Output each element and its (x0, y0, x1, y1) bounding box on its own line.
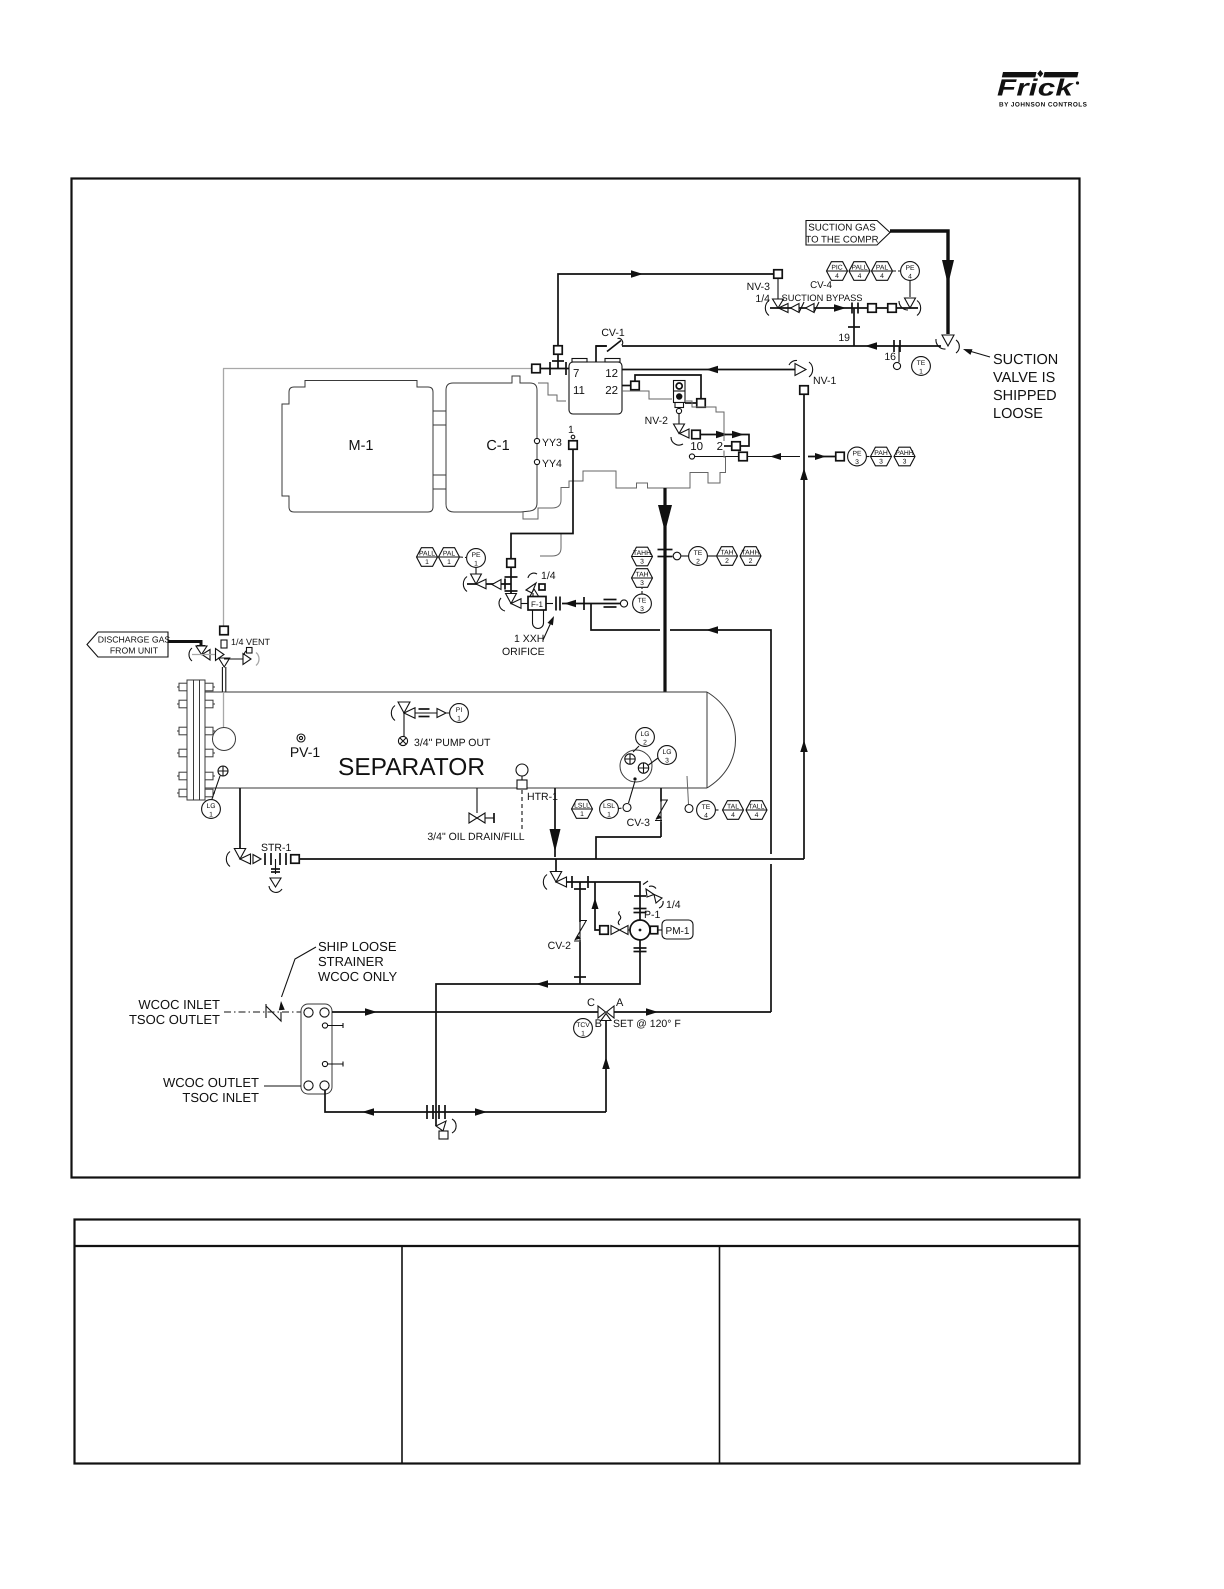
flow arrow right on y274 (631, 270, 643, 278)
svg-text:1: 1 (447, 559, 451, 566)
svg-text:TE: TE (917, 360, 926, 367)
node LSL tap (623, 804, 631, 812)
node port1 (571, 435, 575, 439)
svg-text:TE: TE (638, 597, 647, 604)
valve pump out angle (398, 702, 410, 713)
fitting square port10 a (739, 452, 748, 461)
wire PE-1 branch (467, 583, 511, 585)
svg-text:Frick: Frick (997, 75, 1075, 101)
svg-text:12: 12 (605, 368, 618, 380)
ticks junction 16 (893, 340, 895, 352)
wire vent branch (224, 658, 243, 660)
valve quarter relief P1 (646, 889, 654, 897)
svg-text:TSOC INLET: TSOC INLET (182, 1090, 259, 1105)
svg-text:1/4 VENT: 1/4 VENT (231, 637, 271, 647)
svg-text:4: 4 (880, 273, 884, 280)
union pump bottom (634, 947, 647, 949)
svg-text:3: 3 (665, 757, 669, 764)
instrument TE-3 (633, 594, 652, 613)
separator internal float chamber (213, 728, 236, 751)
tick oil inj b (505, 590, 518, 592)
node YY3 (534, 438, 539, 443)
wire port7 header (531, 368, 569, 370)
wire loop y630 right (670, 630, 771, 854)
valve vent block (216, 649, 225, 661)
svg-text:1: 1 (581, 1030, 585, 1037)
separator shell (205, 692, 707, 788)
signal dash PAL4-PE4 (893, 270, 900, 272)
instrument TAL-4 (723, 801, 744, 820)
svg-text:TE: TE (702, 804, 711, 811)
node YY4 (534, 459, 539, 464)
instrument PE-3 (848, 447, 867, 466)
leader LG-1 (212, 776, 220, 799)
wire solenoid loop (635, 375, 701, 399)
flow arrow up TCV B (602, 1057, 610, 1069)
wire pump left port (627, 929, 630, 931)
wire WCOC top line (332, 1011, 598, 1013)
svg-text:1 XXH: 1 XXH (514, 633, 544, 645)
fitting square port10 b (836, 452, 845, 461)
valve NV-1 needle (795, 364, 806, 376)
thermowell TE-3 (620, 600, 627, 607)
flow arrow left y630 (706, 626, 718, 634)
tick oil line (583, 597, 585, 610)
svg-text:7: 7 (573, 368, 579, 380)
svg-text:PE: PE (471, 552, 481, 559)
node port10 (689, 454, 694, 459)
separator flange bolts (179, 683, 187, 691)
thermowell TE-2 circle (673, 552, 681, 560)
svg-text:SEPARATOR: SEPARATOR (338, 754, 485, 781)
fitting square solenoid right (697, 399, 706, 408)
instrument TAH-2 (717, 547, 738, 566)
svg-text:P-1: P-1 (644, 909, 661, 921)
wire discharge flag thick (168, 642, 201, 647)
instrument TE-2 (689, 547, 708, 566)
instrument PAHH-3 (894, 447, 915, 466)
valve discharge check (189, 648, 192, 661)
fitting square pump right (650, 926, 658, 934)
svg-text:SUCTION BYPASS: SUCTION BYPASS (782, 293, 863, 303)
separator head (707, 692, 736, 788)
leader ship loose (282, 947, 317, 997)
wire vent grey stub (192, 654, 216, 656)
junction ticks at 19 (851, 303, 853, 314)
svg-text:2: 2 (717, 441, 723, 453)
instrument PE-4 (901, 262, 920, 281)
instrument LSL-1 (600, 800, 619, 819)
svg-text:CV-4: CV-4 (810, 280, 832, 291)
fitting square bypass 1 (868, 304, 877, 313)
thermowell TE-2 bars (658, 549, 673, 551)
svg-text:2: 2 (725, 558, 729, 565)
tick CV2 top (574, 888, 586, 890)
fitting square port1 (569, 441, 578, 450)
svg-text:PALL: PALL (419, 550, 435, 557)
wire vessel main oil outlet (554, 788, 556, 857)
instrument PE-1 (467, 549, 486, 568)
wire LG-2 tap (633, 746, 639, 752)
instrument PAL-1 (439, 548, 460, 567)
wire LG-3 tap (649, 758, 659, 765)
svg-text:B: B (595, 1018, 602, 1030)
solenoid valve SV (674, 381, 686, 403)
wire port22 stub (622, 385, 631, 387)
instrument TALL-4 (746, 801, 767, 820)
wire port10 line b (808, 456, 836, 458)
svg-text:1/4: 1/4 (541, 570, 556, 582)
instrument TE-4 (697, 801, 716, 820)
wire NV-1 riser x804 (803, 394, 805, 859)
valve bypass check 2 (806, 304, 815, 313)
wire CV-3 horiz (596, 837, 661, 859)
flow arrow up NV1 riser a (800, 468, 808, 480)
svg-text:STR-1: STR-1 (261, 842, 291, 854)
svg-text:1: 1 (425, 559, 429, 566)
flow arrow right bypass (834, 304, 846, 312)
junction 19 vertical (853, 308, 855, 346)
svg-text:BY JOHNSON CONTROLS: BY JOHNSON CONTROLS (999, 102, 1088, 109)
instrument TAHH-3 (632, 547, 653, 566)
svg-text:1/4: 1/4 (666, 899, 681, 911)
fitting square pump left (600, 926, 609, 935)
svg-text:4: 4 (858, 273, 862, 280)
fitting square oil inj (507, 559, 516, 568)
svg-text:WCOC ONLY: WCOC ONLY (318, 969, 398, 984)
svg-text:A: A (616, 997, 624, 1009)
ticks port7 line (549, 362, 551, 375)
Frick logo bar (1002, 70, 1079, 77)
junction ticks WCOC bottom (426, 1105, 428, 1119)
svg-text:2: 2 (643, 739, 647, 746)
valve STR-1 angle (226, 852, 230, 867)
compressor casing outline right (686, 401, 724, 441)
svg-text:TCV: TCV (576, 1022, 590, 1029)
svg-text:LOOSE: LOOSE (993, 406, 1043, 422)
valve PE1 branch angle (471, 574, 482, 584)
svg-text:1: 1 (474, 560, 478, 567)
svg-text:SHIP LOOSE: SHIP LOOSE (318, 939, 397, 954)
wire F1 to orifice (546, 603, 553, 605)
wire suction gas thick line (890, 231, 948, 334)
svg-text:SHIPPED: SHIPPED (993, 388, 1057, 404)
signal TE2-TAH2 (708, 555, 717, 557)
svg-text:1/4: 1/4 (755, 293, 770, 305)
svg-text:3/4" PUMP OUT: 3/4" PUMP OUT (414, 737, 491, 749)
fitting square port22 (631, 381, 640, 390)
svg-text:NV-3: NV-3 (747, 281, 771, 293)
sight glass assembly (620, 750, 652, 782)
motor M-1 box (282, 381, 433, 513)
flow arrow left WCOC bottom (362, 1108, 374, 1116)
wire pump out horiz (415, 712, 449, 714)
instrument PALL-1 (417, 548, 438, 567)
parts table column divider 2 (719, 1246, 721, 1464)
svg-text:VALVE IS: VALVE IS (993, 370, 1055, 386)
tick on NV3 riser (552, 360, 564, 362)
leader to suction valve (966, 350, 990, 357)
svg-text:1: 1 (209, 811, 213, 818)
parts table header rule (75, 1245, 1080, 1247)
wire port1 down (511, 449, 573, 599)
svg-text:C-1: C-1 (486, 438, 509, 454)
valve bypass check 1 (791, 304, 800, 313)
vent cap fitting (221, 640, 227, 648)
svg-text:TAL: TAL (727, 803, 739, 810)
wire x771 lower (770, 864, 772, 1012)
flow arrow right port10 (815, 453, 826, 460)
svg-text:3: 3 (640, 606, 644, 613)
valve PE1 branch check (492, 580, 501, 590)
pipe vent double (221, 667, 223, 692)
svg-text:TAH: TAH (720, 549, 733, 556)
svg-text:CV-1: CV-1 (601, 327, 625, 339)
svg-text:3: 3 (855, 459, 859, 466)
signal dash LSL (619, 807, 624, 810)
svg-text:11: 11 (573, 385, 585, 397)
flow arrow down on suction line (942, 260, 954, 285)
wire vent dip tube (223, 692, 225, 728)
parts table frame (75, 1220, 1080, 1464)
wire PE-4 to valve (909, 281, 911, 298)
svg-text:PAHH: PAHH (895, 450, 913, 457)
svg-text:19: 19 (838, 332, 850, 344)
fitting square port7 line (532, 364, 541, 373)
signal dash PE3 (867, 456, 871, 458)
svg-text:YY3: YY3 (542, 437, 562, 449)
instrument PALL-4 (849, 262, 870, 281)
flow arrow left port10 (770, 453, 781, 460)
svg-text:4: 4 (835, 273, 839, 280)
fitting square vent top (220, 626, 229, 635)
wire WCOC inlet dashed (224, 1011, 301, 1013)
fitting square port2 (732, 442, 741, 451)
flow arrow right WCOC bottom (475, 1108, 487, 1116)
wire WCOC bottom line (325, 1090, 606, 1112)
fitting square NV3 riser (554, 346, 563, 355)
svg-text:TALL: TALL (749, 803, 765, 810)
valve CV-2 wire (579, 882, 581, 984)
tick oil inj a (505, 576, 518, 578)
wire suction main line (596, 345, 941, 347)
valve TCV-1 3way (598, 1006, 606, 1018)
svg-text:4: 4 (731, 812, 735, 819)
wire port12 line (622, 369, 796, 371)
signal dash PAL1-PE1 (460, 556, 466, 559)
fitting square on NV-3 drop (774, 270, 783, 279)
compressor casing outline upper left (538, 383, 566, 401)
fitting square NV-2 out (692, 430, 701, 439)
wire port7 header grey (223, 368, 531, 370)
flow arrow left suction (865, 342, 877, 350)
flow arrow left pump discharge (536, 980, 548, 988)
orifice 1 XXH (555, 597, 557, 611)
instrument LG-1 (202, 800, 221, 819)
node pump out tap (398, 736, 407, 745)
wire pump out drop (403, 713, 405, 737)
svg-text:NV-2: NV-2 (645, 415, 669, 427)
flow arrow up priming (592, 898, 599, 909)
svg-text:TAHH: TAHH (633, 550, 651, 557)
svg-text:FROM UNIT: FROM UNIT (110, 646, 159, 656)
instrument LSLL-1 (572, 800, 593, 819)
svg-text:4: 4 (704, 812, 708, 819)
wire oil collector (299, 858, 804, 860)
compressor valve block (569, 362, 622, 414)
wire vessel to STR-1 (239, 788, 241, 848)
node LG1 tap (218, 766, 228, 776)
svg-text:3: 3 (879, 459, 883, 466)
svg-text:PAH: PAH (874, 450, 888, 457)
svg-text:PALL: PALL (851, 264, 867, 271)
wire CV-1 to block (596, 346, 607, 362)
flow arrow right TCV (646, 1008, 658, 1016)
fitting square NV-1 (800, 386, 809, 395)
svg-text:3: 3 (640, 580, 644, 587)
union pump out (419, 708, 430, 710)
compressor casing foot left (540, 534, 561, 556)
wire WCOC outlet label line (264, 1085, 301, 1087)
instrument TAH-3 (632, 569, 653, 588)
valve pump suction angle (555, 859, 557, 872)
svg-text:1: 1 (457, 715, 461, 722)
instrument PIC-4 (827, 262, 848, 281)
svg-text:F-1: F-1 (531, 600, 544, 609)
svg-text:HTR-1: HTR-1 (527, 791, 558, 803)
pump P-1 (630, 920, 650, 940)
compressor casing outline upper right (622, 391, 672, 399)
instrument TE-1 (912, 357, 931, 376)
valve suction shipped loose (942, 335, 954, 346)
compressor C-1 box (446, 376, 537, 512)
signal HTR-1 dashed (521, 790, 523, 830)
check triangle pump out (437, 709, 446, 718)
instrument PAL-4 (872, 262, 893, 281)
svg-text:NV-1: NV-1 (813, 375, 837, 387)
svg-text:LG: LG (206, 803, 215, 810)
signal thermowell to TE-2 (681, 555, 689, 557)
valve drain WCOC (436, 1121, 446, 1131)
wire pump suction (566, 882, 640, 920)
wire suction bypass line (770, 307, 918, 309)
instrument PAH-3 (871, 447, 892, 466)
svg-text:YY4: YY4 (542, 458, 562, 470)
instrument TAHH-2 (740, 547, 761, 566)
tick pump drop (634, 895, 646, 897)
motor PM-1 (662, 920, 693, 939)
svg-text:SUCTION: SUCTION (993, 352, 1058, 368)
valve NV-3 needle (773, 299, 784, 308)
flow arrow down discharge (658, 505, 672, 532)
svg-text:LSLL: LSLL (574, 802, 590, 809)
svg-text:WCOC INLET: WCOC INLET (138, 997, 220, 1012)
wire CV-3 drop upper (660, 788, 662, 837)
ticks pump suction (571, 876, 573, 888)
svg-text:PI: PI (456, 707, 463, 714)
flow arrow right WCOC (365, 1008, 377, 1016)
svg-text:2: 2 (749, 558, 753, 565)
wire F-1 line (521, 603, 528, 605)
svg-text:PAL: PAL (876, 264, 889, 271)
svg-text:WCOC OUTLET: WCOC OUTLET (163, 1075, 259, 1090)
svg-text:LSL: LSL (603, 803, 615, 810)
wire TCV B drop (605, 1021, 607, 1113)
flag SUCTION GAS TO THE COMPR (806, 221, 890, 246)
wire square to solenoid (685, 402, 697, 404)
strainer F-1 (528, 597, 546, 611)
svg-text:M-1: M-1 (349, 438, 374, 454)
svg-text:3: 3 (903, 459, 907, 466)
diagram border frame (72, 179, 1080, 1178)
svg-text:PE: PE (852, 450, 862, 457)
valve quarter above F1 (528, 573, 537, 578)
thermowell TE-1 (898, 346, 900, 362)
heat exchanger WCOC (301, 1004, 332, 1094)
svg-text:1: 1 (580, 811, 584, 818)
valve NV-2 needle (674, 424, 685, 434)
wire NV-2 to port2 (700, 435, 749, 447)
ticks STR-1 b (279, 853, 281, 865)
svg-text:PAL: PAL (443, 550, 456, 557)
svg-text:1: 1 (568, 424, 574, 436)
fitting square STR-1 (291, 855, 300, 864)
valve oil drain fill (469, 813, 477, 823)
svg-text:LG: LG (640, 731, 649, 738)
svg-text:ORIFICE: ORIFICE (502, 646, 545, 658)
svg-text:C: C (587, 997, 595, 1009)
strainer ship loose (266, 1004, 281, 1021)
svg-text:DISCHARGE GAS: DISCHARGE GAS (98, 635, 171, 645)
instrument LG-3 (658, 746, 677, 765)
flow arrow up NV1 riser b (800, 740, 808, 752)
svg-text:4: 4 (908, 273, 912, 280)
thermowell TE-4 (687, 776, 689, 804)
wire sight glass drop (629, 781, 636, 803)
coupling M1-C1 upper (433, 411, 446, 425)
wire NV-3 supply line y274 (558, 274, 773, 368)
tick CV2 bottom (574, 976, 586, 978)
wire port2 stub (724, 445, 732, 447)
wire NV-3 drop (777, 279, 779, 300)
wire orifice to TE3 area (562, 603, 620, 605)
relief PV-1 symbol (297, 734, 305, 742)
svg-text:2: 2 (696, 558, 700, 565)
svg-text:3/4" OIL DRAIN/FILL: 3/4" OIL DRAIN/FILL (427, 831, 524, 843)
node solenoid drain (676, 408, 681, 413)
strainer blowdown tee (275, 859, 277, 884)
flow arrow down discharge flag (197, 645, 206, 653)
signal dash TE3-TAH3 (641, 588, 643, 594)
fitting square bypass 2 (888, 304, 897, 313)
valve CV-1 check (606, 341, 622, 351)
svg-text:22: 22 (605, 385, 618, 397)
flow arrow left oil line (564, 600, 576, 608)
svg-text:TAHH: TAHH (742, 549, 760, 556)
compressor casing outline lower (523, 457, 726, 519)
svg-text:TO THE COMPR: TO THE COMPR (805, 235, 878, 246)
instrument LG-2 (636, 728, 655, 747)
wire pump priming (595, 882, 600, 930)
wire PE-1 drop (475, 568, 477, 575)
wire solenoid to NV-2 (678, 414, 680, 425)
wire TE3 to loop (591, 604, 660, 631)
signal dash TE4 (716, 809, 720, 811)
instrument PI-1 (450, 704, 469, 723)
svg-text:PM-1: PM-1 (666, 926, 690, 937)
svg-text:16: 16 (884, 351, 896, 363)
wire oil drain fill (476, 788, 478, 813)
